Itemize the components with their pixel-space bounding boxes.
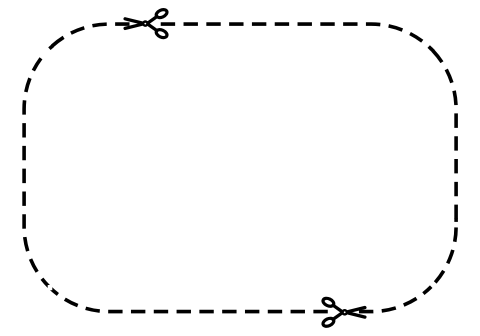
arm 2: lower blade to upper loop — [125, 17, 157, 29]
scissors bottom (mirrored: blades right, handles left) — [322, 297, 365, 328]
dashed cut-line: bottom edge with half corner arcs — [49, 287, 431, 312]
white patch removing stray dot at top-left 45-degree joint — [44, 46, 52, 54]
stub joining straddle dash at top-left corner — [49, 46, 53, 49]
extension of long dash on right edge before bottom-right corner — [454, 219, 458, 222]
arm 2: lower blade to upper loop — [333, 305, 365, 317]
dashed cut-line: left edge with half corner arcs — [24, 49, 49, 287]
scissors top (blades pointing left, handles right) — [125, 8, 168, 39]
arm 1: upper blade to lower loop — [125, 19, 157, 31]
stub joining straddle dash at top-right corner — [431, 49, 434, 52]
white knockout under bottom scissors blade opening — [334, 309, 352, 314]
pivot screw — [142, 20, 149, 27]
pivot screw — [341, 309, 348, 316]
white cut splitting merged dash at bottom-left 45-degree joint — [48, 285, 53, 290]
white knockout under top scissors blade opening — [133, 22, 154, 27]
arm 1: upper blade to lower loop — [333, 308, 365, 320]
dashed cut-line: top edge with half corner arcs — [49, 24, 431, 49]
dashed cut-line: right edge with half corner arcs — [431, 49, 456, 287]
